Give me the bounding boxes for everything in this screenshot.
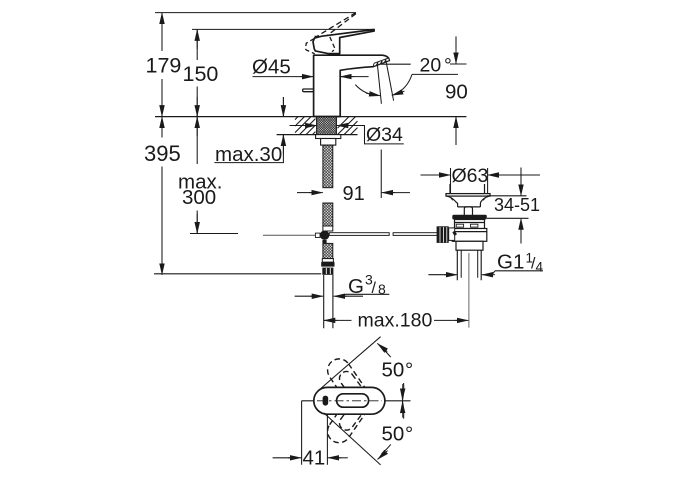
svg-text:8: 8 [378, 281, 386, 297]
svg-text:/: / [372, 280, 377, 297]
svg-text:G: G [348, 275, 364, 298]
svg-text:Ø34: Ø34 [366, 124, 403, 146]
svg-text:179: 179 [146, 54, 182, 78]
svg-text:max.30: max.30 [215, 143, 282, 166]
svg-text:°: ° [405, 423, 413, 446]
svg-text:°: ° [405, 359, 413, 382]
svg-text:50: 50 [382, 359, 405, 382]
svg-text:50: 50 [382, 423, 405, 446]
svg-text:41: 41 [303, 446, 326, 469]
svg-text:max.180: max.180 [358, 309, 433, 331]
svg-text:G1: G1 [497, 251, 524, 274]
svg-text:Ø63: Ø63 [452, 165, 489, 187]
svg-text:20: 20 [420, 54, 442, 76]
svg-text:90: 90 [445, 81, 468, 104]
svg-text:Ø45: Ø45 [252, 56, 291, 79]
svg-text:150: 150 [183, 62, 219, 86]
svg-text:°: ° [444, 54, 452, 76]
svg-text:4: 4 [536, 260, 544, 275]
svg-text:300: 300 [182, 186, 216, 209]
svg-text:34-51: 34-51 [494, 195, 540, 215]
svg-text:91: 91 [343, 183, 365, 205]
svg-text:395: 395 [144, 141, 181, 166]
